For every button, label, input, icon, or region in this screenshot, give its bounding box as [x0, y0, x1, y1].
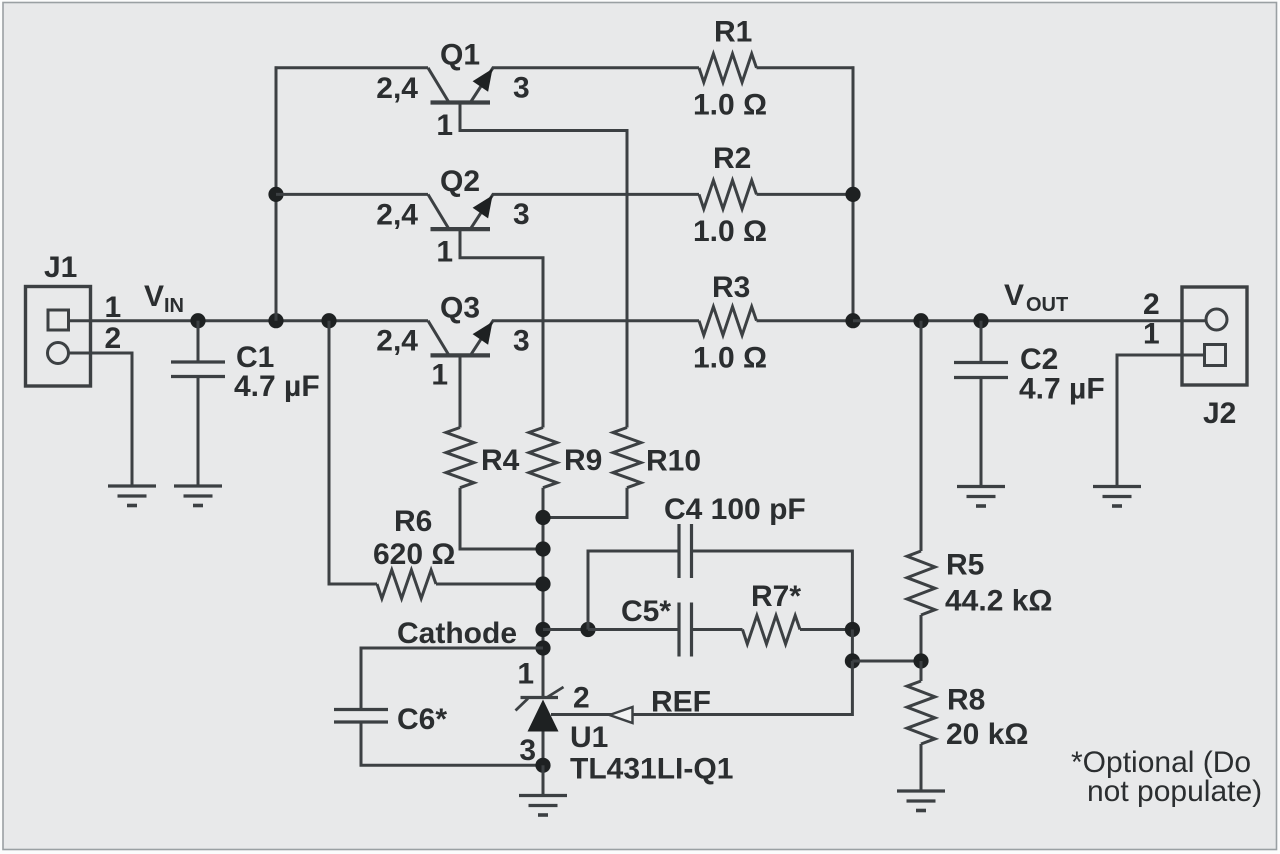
- wire U1 anode to ground: [542, 765, 545, 794]
- resistor R5: [907, 551, 935, 615]
- resistor R9: [529, 428, 557, 488]
- capacitor C1: [171, 360, 225, 363]
- wire R6 to center column: [436, 583, 543, 586]
- connector J1: [26, 287, 91, 387]
- junction VIN/left rail: [268, 313, 283, 328]
- wire VOUT rail: [853, 319, 1206, 322]
- svg-text:R7*: R7*: [751, 580, 801, 613]
- wire R2 to right column: [757, 193, 854, 196]
- wire C1 bottom to ground: [197, 378, 200, 485]
- junction feedback/REF: [845, 653, 860, 668]
- ground (C2): [957, 485, 1005, 488]
- shunt regulator U1 (TL431 symbol): [516, 687, 564, 765]
- svg-text:R9: R9: [564, 444, 602, 477]
- svg-text:620 Ω: 620 Ω: [373, 538, 455, 571]
- wire branch up to C4 row: [588, 551, 678, 630]
- svg-text:1: 1: [436, 236, 453, 269]
- svg-text:1: 1: [431, 359, 448, 392]
- svg-text:1: 1: [105, 291, 122, 324]
- svg-text:V: V: [1004, 279, 1024, 312]
- svg-text:2,4: 2,4: [376, 72, 418, 105]
- junction VIN/R6 branch: [321, 313, 336, 328]
- junction cathode/C6 loop: [535, 640, 550, 655]
- resistor R1: [699, 54, 757, 83]
- junction R10/center column: [535, 510, 550, 525]
- wire right join column R1/R2/R3: [852, 66, 855, 320]
- capacitor C6: [334, 708, 388, 711]
- junction rail/Q2 base: [268, 187, 283, 202]
- wire Q1 base lead: [275, 66, 428, 69]
- wire R4 bottom elbow to center column: [460, 488, 543, 549]
- wire Q1 emitter pin1 to R10 column: [460, 103, 627, 428]
- svg-text:44.2 kΩ: 44.2 kΩ: [945, 585, 1052, 618]
- wire VIN to C1 top: [197, 321, 200, 361]
- svg-text:C6*: C6*: [397, 703, 447, 736]
- svg-text:2,4: 2,4: [376, 199, 418, 232]
- wire VOUT to R5: [920, 321, 923, 551]
- junction VOUT/R5: [913, 313, 928, 328]
- junction divider node: [913, 653, 928, 668]
- wire feedback node to R5/R8 divider: [852, 660, 921, 663]
- junction R3/VOUT: [845, 313, 860, 328]
- wire VIN rail (J1 pin1 to Q3 base): [69, 319, 429, 322]
- junction cathode/C5 branch: [535, 622, 550, 637]
- capacitor C5: [677, 603, 680, 657]
- wire C2 to ground: [980, 379, 983, 485]
- junction R7/C4 column: [845, 622, 860, 637]
- svg-text:20 kΩ: 20 kΩ: [946, 718, 1028, 751]
- svg-text:2: 2: [1143, 288, 1160, 321]
- junction R4/center column: [535, 541, 550, 556]
- wire R8 to ground: [920, 744, 923, 790]
- svg-text:Q1: Q1: [440, 39, 480, 72]
- svg-text:3: 3: [519, 734, 536, 767]
- svg-text:1.0 Ω: 1.0 Ω: [693, 89, 767, 122]
- wire divider node to R8: [920, 661, 923, 681]
- transistor Q1: [428, 67, 494, 103]
- svg-text:2: 2: [105, 322, 122, 355]
- svg-text:Cathode: Cathode: [397, 617, 517, 650]
- junction R6/center column: [535, 576, 550, 591]
- wire Q2 emitter pin1 to R9 column: [460, 229, 543, 427]
- wire Q3 emitter pin1 to R4: [459, 355, 462, 427]
- wire R3 to VOUT junction: [757, 319, 854, 322]
- svg-text:R8: R8: [947, 684, 985, 717]
- svg-text:3: 3: [513, 325, 530, 358]
- ground (U1): [519, 794, 567, 797]
- svg-text:R4: R4: [481, 444, 520, 477]
- wire J1 pin2 to ground: [70, 353, 133, 485]
- junction VIN/C1: [190, 313, 205, 328]
- svg-text:C4 100 pF: C4 100 pF: [664, 493, 806, 526]
- wire REF drop and run to U1: [551, 661, 852, 715]
- svg-text:3: 3: [513, 72, 530, 105]
- svg-text:R2: R2: [713, 142, 751, 175]
- svg-text:C2: C2: [1020, 343, 1058, 376]
- wire R1 to right column: [757, 66, 855, 69]
- wire cathode to C5/C4 branch: [543, 628, 588, 631]
- resistor R4: [446, 428, 474, 488]
- junction C4/C5 branch split: [580, 622, 595, 637]
- wire VIN to R6 (drop): [329, 321, 377, 584]
- junction VOUT/C2: [973, 313, 988, 328]
- wire left base rail (vertical): [275, 66, 278, 320]
- wire branch to C5: [588, 628, 678, 631]
- wire feedback column down: [851, 630, 854, 662]
- resistor R7: [743, 616, 801, 645]
- svg-text:2,4: 2,4: [376, 325, 418, 358]
- ground (J2 pin 1): [1093, 485, 1141, 488]
- svg-text:V: V: [144, 280, 164, 313]
- svg-text:IN: IN: [164, 295, 184, 317]
- svg-text:REF: REF: [651, 686, 711, 719]
- svg-text:R6: R6: [394, 505, 432, 538]
- svg-text:1: 1: [517, 658, 534, 691]
- svg-text:OUT: OUT: [1026, 294, 1068, 316]
- svg-text:1.0 Ω: 1.0 Ω: [693, 342, 767, 375]
- wire Q2 base lead: [276, 193, 428, 196]
- capacitor C2: [954, 361, 1008, 364]
- wire center column (R9 bottom to U1 cathode): [542, 488, 545, 697]
- resistor R3: [699, 307, 757, 336]
- svg-text:Q3: Q3: [440, 292, 480, 325]
- svg-text:1: 1: [1143, 318, 1160, 351]
- wire VOUT to C2: [980, 321, 983, 362]
- wire C5 to R7: [693, 628, 743, 631]
- REF arrowhead (open, pointing at U1): [610, 707, 633, 723]
- wire Q3 collector to R3: [493, 319, 700, 322]
- wire C4 to right feedback column: [693, 551, 853, 630]
- resistor R8: [907, 681, 935, 744]
- wire J2 pin1 to ground: [1117, 355, 1205, 485]
- svg-text:J2: J2: [1203, 397, 1236, 430]
- svg-text:R10: R10: [646, 445, 701, 478]
- svg-text:TL431LI-Q1: TL431LI-Q1: [570, 753, 733, 786]
- svg-text:4.7 µF: 4.7 µF: [234, 370, 320, 403]
- junction R2/column: [845, 187, 860, 202]
- resistor R6: [377, 570, 436, 599]
- connector J2: [1182, 287, 1247, 385]
- svg-text:3: 3: [513, 198, 530, 231]
- svg-text:1.0 Ω: 1.0 Ω: [693, 215, 767, 248]
- svg-text:1: 1: [436, 109, 453, 142]
- svg-text:4.7 µF: 4.7 µF: [1019, 373, 1105, 406]
- junction U1 anode/C6: [535, 758, 550, 773]
- transistor Q3: [428, 320, 494, 356]
- svg-text:U1: U1: [570, 721, 608, 754]
- ground (J1 pin 2): [108, 484, 156, 487]
- resistor R10: [613, 428, 641, 488]
- svg-text:C5*: C5*: [621, 595, 671, 628]
- transistor Q2: [428, 194, 494, 230]
- svg-text:J1: J1: [44, 251, 77, 284]
- resistor R2: [699, 180, 757, 209]
- svg-text:R1: R1: [714, 16, 752, 49]
- wire C6 bottom to U1 anode node: [361, 724, 543, 766]
- svg-text:R5: R5: [946, 549, 984, 582]
- svg-text:2: 2: [573, 682, 590, 715]
- wire Q2 collector to R2: [493, 193, 700, 196]
- wire R5 to divider node: [920, 615, 923, 661]
- svg-text:Q2: Q2: [440, 165, 480, 198]
- ground (C1): [174, 484, 222, 487]
- ground (R8): [897, 789, 945, 792]
- wire cathode to C6 top: [361, 648, 543, 708]
- wire Q1 collector to R1: [493, 66, 700, 69]
- svg-text:R3: R3: [712, 271, 750, 304]
- capacitor C4: [677, 524, 680, 578]
- wire R10 bottom elbow to center column: [543, 488, 627, 518]
- wire R7 to feedback column: [800, 628, 852, 631]
- svg-text:not populate): not populate): [1087, 775, 1262, 808]
